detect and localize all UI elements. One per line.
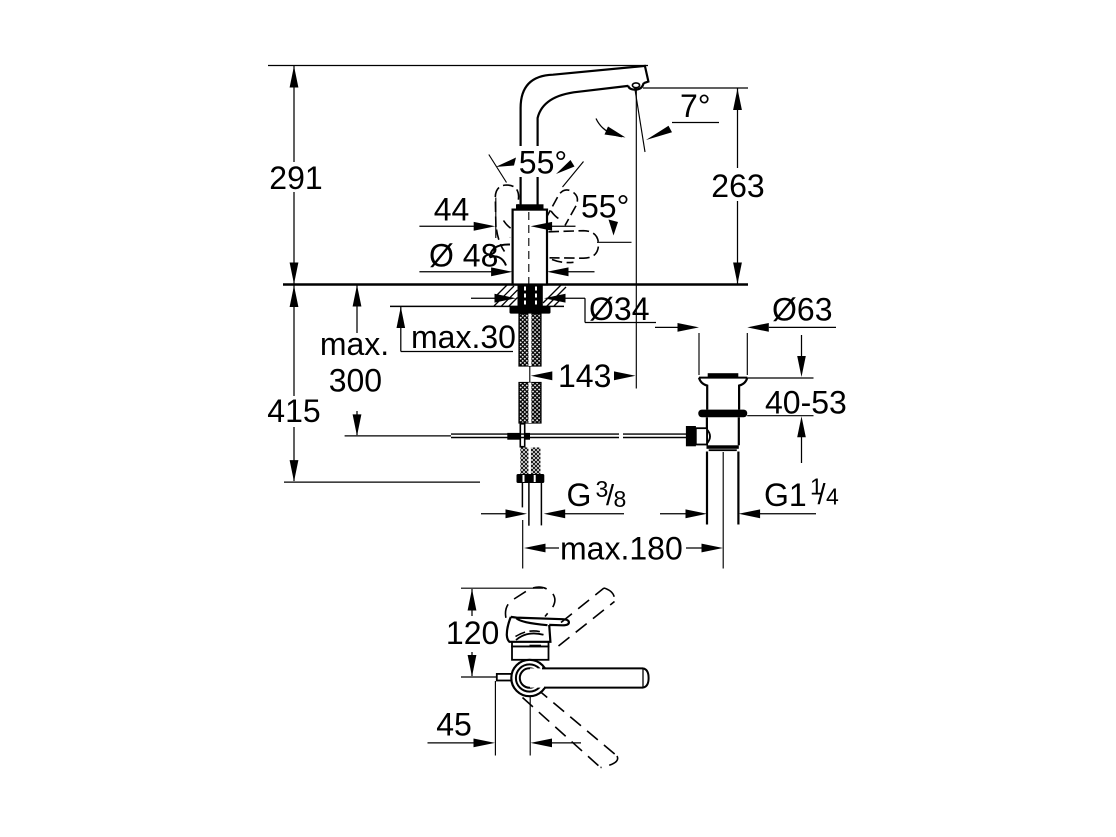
dimension diameter 34 (471, 291, 656, 327)
dimension 45 (428, 681, 582, 756)
pop-up rod (horizontal) (451, 434, 686, 437)
svg-text:291: 291 (269, 160, 322, 196)
svg-text:263: 263 (711, 168, 764, 204)
spout arm (plan) (530, 668, 649, 687)
deck (mounting surface) line (283, 283, 748, 286)
waste body bottom bars (707, 445, 739, 449)
drain centerline (722, 452, 724, 569)
deck hatching left (494, 285, 518, 306)
dimension 291 (269, 66, 322, 284)
supply hose nuts (520, 448, 528, 475)
svg-text:8: 8 (614, 486, 627, 512)
svg-text:7°: 7° (680, 88, 711, 124)
pop-up rod bar (507, 433, 530, 440)
dimension diameter 48 (419, 238, 594, 277)
dimension 120 (446, 588, 543, 677)
body centerline (528, 212, 530, 284)
water stream vertical reference line (635, 88, 637, 389)
rod connection nut (686, 426, 696, 446)
svg-text:4: 4 (826, 484, 839, 510)
55 degree label 1 (489, 145, 584, 188)
pop-up waste trumpet (699, 378, 747, 410)
7 degree slant line (635, 87, 645, 152)
svg-text:max.30: max.30 (411, 319, 516, 355)
hex nut (517, 474, 545, 483)
dimension max.300 (320, 285, 451, 436)
threaded shank upper section (519, 314, 541, 366)
cartridge cap band (plan) (512, 642, 549, 647)
dimension 143 (531, 358, 636, 394)
top extension line (268, 65, 648, 67)
pop-up waste O-ring (698, 410, 747, 418)
deck underside line (390, 305, 564, 307)
svg-text:44: 44 (434, 192, 470, 228)
waste tailpipe (706, 452, 708, 525)
aerator (628, 83, 644, 90)
dimension 263 (643, 88, 768, 284)
lever hook on body (490, 244, 510, 265)
handle horizontal lobe (dashed phantom) (549, 231, 599, 259)
svg-text:max.180: max.180 (560, 531, 683, 567)
body cap (516, 204, 544, 209)
svg-text:55°: 55° (519, 145, 567, 181)
threaded shank lower section (519, 383, 541, 424)
threaded shank through deck (518, 285, 543, 307)
pop-up rod pin (520, 424, 524, 447)
angle 7 degree label (646, 88, 719, 140)
pop-up waste flange top line (699, 377, 747, 379)
body (plan) (512, 647, 549, 660)
svg-text:Ø34: Ø34 (589, 291, 649, 327)
shank centerline (529, 366, 531, 383)
handle plan view (solid) (507, 617, 569, 642)
handle ear left (dashed phantom) (495, 185, 518, 252)
svg-text:Ø 48: Ø 48 (429, 238, 498, 274)
dimension 44 (419, 192, 575, 239)
deck hatching right (543, 285, 566, 307)
pop-up waste body (706, 417, 708, 445)
svg-text:415: 415 (267, 393, 320, 429)
horseshoe washer flange (510, 306, 551, 313)
handle ear right (dashed phantom) (545, 190, 577, 226)
svg-text:300: 300 (329, 362, 382, 398)
svg-text:40-53: 40-53 (765, 385, 847, 421)
dimension 40-53 (747, 335, 847, 463)
max.30 label (397, 307, 516, 355)
dimension G1 1/4 (660, 474, 839, 519)
dimension max.180 (523, 520, 723, 569)
handle up-position lobe (dashed, plan) (505, 587, 554, 618)
svg-text:max.: max. (320, 326, 389, 362)
handle lever rotated +55 (dashed, plan) (559, 588, 615, 646)
55 degree label 2 (581, 189, 632, 243)
svg-text:Ø63: Ø63 (772, 292, 832, 328)
swivel arc at spout tip (596, 119, 622, 137)
svg-text:45: 45 (436, 707, 472, 743)
pop-up waste cap (708, 373, 739, 377)
svg-text:120: 120 (446, 615, 499, 651)
handle lever rotated -55 (dashed, plan) (523, 689, 618, 768)
side port (696, 428, 707, 444)
supply hoses (522, 483, 541, 526)
dimension G 3/8 (481, 476, 626, 518)
spout outline (521, 66, 649, 205)
svg-text:55°: 55° (581, 189, 629, 225)
svg-text:G1: G1 (764, 477, 807, 513)
faucet body (513, 210, 547, 285)
outlet stub (plan) (497, 674, 513, 681)
svg-text:G: G (567, 477, 592, 513)
dimension diameter 63 (655, 292, 836, 375)
spout base circles (plan) (511, 660, 547, 696)
dimension 415 (265, 285, 480, 482)
svg-text:143: 143 (558, 358, 611, 394)
spout inner edge (538, 86, 629, 205)
